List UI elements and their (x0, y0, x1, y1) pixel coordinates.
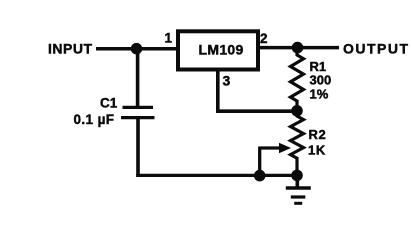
regulator U1 LM109 (178, 31, 258, 69)
svg-text:INPUT: INPUT (48, 41, 93, 57)
wire: R2 wiper arm (260, 143, 291, 176)
svg-text:0.1 µF: 0.1 µF (74, 112, 115, 127)
svg-text:R2: R2 (309, 127, 327, 142)
svg-text:3: 3 (223, 72, 231, 88)
wire: bottom rail (136, 174, 297, 177)
ground (286, 175, 311, 203)
wire: pin 3 down and right to R1/R2 junction (218, 69, 297, 111)
svg-text:1: 1 (165, 30, 173, 45)
svg-text:1K: 1K (308, 143, 326, 158)
svg-text:1%: 1% (310, 86, 329, 101)
wire: INPUT to pin 1 (96, 47, 177, 51)
resistor R1 (291, 48, 304, 111)
node: output junction (292, 42, 304, 54)
resistor R2 (potentiometer) (291, 111, 304, 176)
svg-text:2: 2 (260, 31, 268, 46)
svg-text:C1: C1 (100, 96, 118, 111)
node: input junction (131, 43, 143, 55)
node: wiper junction on bottom rail (254, 170, 266, 182)
wire: C1 bottom plate down to bottom rail (136, 118, 140, 177)
capacitor C1 (121, 107, 155, 117)
node: R2 bottom junction (291, 170, 303, 182)
svg-text:OUTPUT: OUTPUT (343, 41, 410, 57)
wire: pin 2 to output (260, 46, 339, 50)
node: R1/R2 junction (291, 105, 303, 117)
svg-text:LM109: LM109 (199, 41, 244, 57)
wire: input junction down to C1 top plate (136, 49, 140, 108)
